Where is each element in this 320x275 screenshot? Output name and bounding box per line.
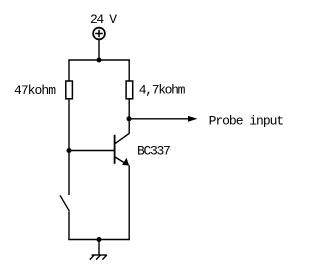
svg-text:Probe input: Probe input: [209, 114, 285, 129]
transistor Q1 emitter lead: [115, 157, 126, 164]
wire base: [69, 150, 114, 152]
wire right drop to R2: [128, 60, 130, 81]
svg-text:BC337: BC337: [137, 144, 171, 159]
ground: [90, 255, 107, 260]
wire bottom rail: [68, 239, 130, 241]
svg-text:24 V: 24 V: [90, 12, 117, 27]
svg-text:47kohm: 47kohm: [14, 83, 56, 98]
wire switch to bottom rail: [68, 212, 70, 241]
node top junction: [97, 58, 102, 63]
svg-text:4,7kohm: 4,7kohm: [139, 83, 186, 98]
wire R1 to switch: [68, 99, 70, 195]
probe arrowhead: [188, 116, 198, 122]
wire top rail: [68, 59, 130, 61]
wire probe output: [129, 118, 190, 120]
transistor Q1 emitter arrowhead: [122, 158, 129, 166]
wire left drop to R1: [68, 60, 70, 81]
wire R2 to collector node: [128, 99, 130, 119]
node base junction: [67, 148, 72, 153]
node collector junction: [127, 116, 132, 121]
transistor Q1 base bar: [114, 135, 116, 164]
switch S1 blade: [60, 195, 69, 211]
resistor 47kohm: [66, 81, 73, 99]
wire ground stub: [98, 240, 100, 256]
supply terminal circle with plus: [93, 28, 105, 40]
node ground junction: [97, 237, 102, 242]
resistor 4,7kohm: [126, 81, 133, 99]
wire emitter to bottom rail: [128, 165, 130, 240]
wire supply to top rail: [98, 39, 100, 60]
transistor Q1 BC337 collector lead: [115, 119, 129, 144]
